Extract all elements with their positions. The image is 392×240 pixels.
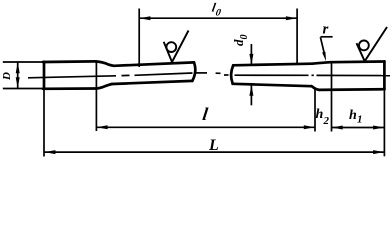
right fillet top bbox=[312, 62, 331, 64]
left end face bbox=[43, 62, 46, 89]
svg-text:1: 1 bbox=[357, 114, 363, 126]
dimension l0: line bbox=[139, 17, 297, 19]
right fillet bottom bbox=[312, 86, 320, 90]
roughness symbol left: circle bbox=[166, 42, 176, 52]
roughness symbol right: circle bbox=[359, 41, 369, 51]
extension line h2/h1 boundary bbox=[331, 63, 333, 132]
dimension d0: top arrow bbox=[250, 44, 252, 105]
roughness symbol right: strokes bbox=[357, 27, 388, 61]
right gauge top edge bbox=[233, 64, 312, 66]
roughness symbol left: strokes bbox=[164, 31, 189, 63]
right head bottom edge bbox=[320, 88, 385, 91]
l arrows bbox=[97, 125, 315, 129]
label d0 (rotated) bbox=[231, 35, 250, 47]
left head top edge bbox=[43, 60, 96, 63]
svg-text:L: L bbox=[208, 137, 219, 154]
left gauge top edge bbox=[114, 62, 194, 65]
dimension h1: line bbox=[332, 127, 385, 129]
r leader arrow bbox=[322, 52, 326, 62]
D arrows bbox=[16, 62, 20, 88]
left transition top bbox=[96, 61, 115, 65]
right head top edge bbox=[331, 60, 384, 63]
center line right half (dash-dot) bbox=[224, 74, 390, 77]
dimension l: extension lines bbox=[96, 62, 315, 132]
svg-text:0: 0 bbox=[239, 35, 250, 40]
svg-text:l: l bbox=[201, 104, 209, 124]
left head bottom edge bbox=[43, 87, 97, 90]
svg-text:h: h bbox=[349, 108, 357, 123]
left gauge bottom edge bbox=[112, 81, 192, 84]
L arrows bbox=[44, 150, 384, 154]
dimension l0: extension lines bbox=[139, 9, 297, 68]
right end face bbox=[383, 61, 386, 89]
dimension D: line bbox=[17, 62, 19, 89]
label l0 bbox=[210, 1, 223, 19]
h1 arrows bbox=[332, 126, 384, 130]
center line left half (dash-dot) bbox=[28, 73, 221, 78]
l0 arrows bbox=[139, 16, 297, 20]
left transition bottom bbox=[97, 84, 113, 89]
right gauge bottom edge bbox=[233, 84, 312, 86]
specimen right half outline bbox=[231, 61, 384, 90]
svg-text:r: r bbox=[323, 22, 329, 38]
dimension l: line bbox=[96, 126, 315, 128]
svg-text:D: D bbox=[1, 72, 13, 81]
dimension L: extension lines bbox=[44, 89, 384, 157]
specimen left half: head outline bbox=[43, 61, 195, 88]
svg-text:2: 2 bbox=[323, 115, 330, 127]
svg-text:0: 0 bbox=[215, 8, 222, 19]
left break cap bbox=[192, 62, 195, 81]
svg-text:h: h bbox=[316, 107, 324, 122]
dimension D: extension lines bbox=[3, 62, 43, 89]
dimension L: line bbox=[44, 151, 384, 153]
right break cap bbox=[231, 65, 233, 83]
